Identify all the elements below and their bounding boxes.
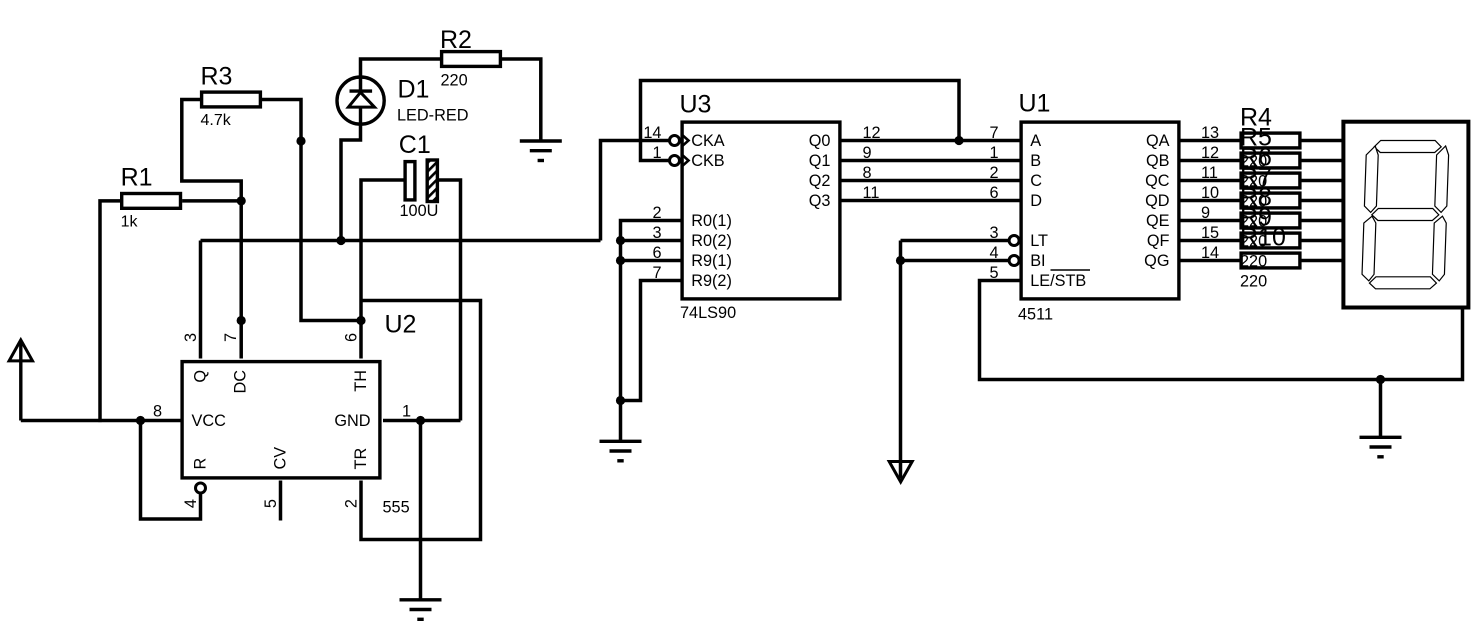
resistor R8	[1241, 213, 1300, 228]
svg-text:TR: TR	[352, 448, 370, 470]
svg-text:7: 7	[989, 124, 998, 142]
svg-text:LT: LT	[1030, 232, 1048, 250]
svg-text:Q: Q	[192, 370, 210, 383]
resistor R4	[1241, 133, 1300, 148]
decoder U1 4511 box	[1021, 122, 1179, 299]
svg-text:Q0: Q0	[809, 132, 831, 150]
svg-text:74LS90: 74LS90	[680, 304, 736, 322]
svg-text:220: 220	[1240, 273, 1267, 291]
svg-text:BI: BI	[1030, 252, 1045, 270]
wire U1 to R9	[1181, 239, 1240, 243]
svg-text:QC: QC	[1145, 172, 1170, 190]
resistor R9	[1241, 233, 1300, 248]
wire U3 R0(1)	[621, 221, 681, 241]
node D1/output rail	[336, 236, 345, 245]
wire LE/STB to display common rail	[980, 281, 1463, 380]
svg-text:QD: QD	[1145, 192, 1169, 210]
node on DC line	[237, 316, 246, 325]
wire U1 to R5	[1181, 159, 1240, 163]
wire Q1 to U1 B	[842, 159, 1020, 163]
svg-text:CKB: CKB	[691, 152, 724, 170]
wire Q2 to U1 C	[842, 179, 1020, 183]
svg-text:U3: U3	[680, 91, 712, 119]
svg-text:2: 2	[343, 499, 361, 508]
svg-text:D: D	[1030, 192, 1042, 210]
wire to right ground	[1379, 380, 1383, 438]
svg-text:2: 2	[652, 204, 661, 222]
wire U1 to R8	[1181, 219, 1240, 223]
wire Q0 to U1 A	[842, 139, 1020, 143]
svg-text:R3: R3	[201, 62, 233, 90]
node reset R0(2)	[616, 236, 625, 245]
wire U2 Q pin 3	[199, 241, 203, 359]
wire R1 left to VCC rail	[100, 201, 120, 422]
op-amp/timer U2 555 box	[182, 362, 380, 478]
display segment B	[1435, 146, 1449, 212]
resistor R1	[122, 194, 181, 209]
wire R1 right lead	[182, 199, 241, 203]
wire R3 left to U2 DC pin 7	[182, 100, 241, 359]
node TH junction	[356, 316, 365, 325]
resistor R3	[202, 92, 261, 107]
display segment D	[1369, 277, 1436, 289]
wire LT	[901, 239, 1010, 243]
wire C1 right to GND pin	[438, 180, 461, 421]
wire R5 to display	[1302, 159, 1344, 163]
node LT/BI	[896, 256, 905, 265]
ground below 555	[400, 600, 442, 620]
svg-text:C: C	[1030, 172, 1042, 190]
U2 R pin bubble	[196, 483, 206, 493]
node on R3 line	[296, 136, 305, 145]
resistor R7	[1241, 193, 1300, 208]
svg-text:6: 6	[652, 244, 661, 262]
svg-text:6: 6	[343, 333, 361, 342]
svg-text:1: 1	[402, 403, 411, 421]
U3 CKA bubble	[670, 136, 680, 146]
wire to ground under 555	[419, 421, 423, 601]
svg-text:D1: D1	[398, 76, 430, 104]
svg-text:R9(2): R9(2)	[691, 272, 732, 290]
node GND pin junction	[416, 416, 425, 425]
display segment F	[1364, 146, 1378, 212]
svg-text:A: A	[1030, 132, 1041, 150]
svg-text:4: 4	[182, 499, 200, 508]
svg-text:555: 555	[383, 499, 410, 517]
svg-text:2: 2	[989, 164, 998, 182]
svg-text:1k: 1k	[121, 213, 139, 230]
svg-text:Q1: Q1	[809, 152, 831, 170]
svg-text:LED-RED: LED-RED	[397, 107, 468, 125]
LED D1	[337, 77, 384, 125]
wire reset chain to ground	[619, 241, 623, 442]
svg-text:CKA: CKA	[691, 132, 725, 150]
svg-text:R2: R2	[440, 26, 472, 54]
svg-text:R10: R10	[1240, 223, 1286, 251]
wire R2 right to ground	[502, 59, 541, 142]
svg-text:QF: QF	[1147, 232, 1170, 250]
svg-text:QG: QG	[1144, 252, 1169, 270]
svg-text:220: 220	[441, 71, 468, 89]
svg-text:U2: U2	[385, 311, 417, 339]
svg-text:14: 14	[643, 124, 661, 142]
svg-text:7: 7	[652, 264, 661, 282]
svg-text:1: 1	[989, 144, 998, 162]
svg-text:7: 7	[222, 333, 240, 342]
wire U2 reset pin 4 loop	[141, 421, 201, 520]
svg-text:R9(1): R9(1)	[691, 252, 732, 270]
svg-text:QE: QE	[1146, 212, 1170, 230]
wire LT/BI to arrow	[899, 241, 903, 479]
display segment C	[1432, 216, 1446, 281]
7-segment display box	[1343, 122, 1468, 308]
svg-text:6: 6	[989, 184, 998, 202]
resistor R6	[1241, 173, 1300, 188]
wire R9 to display	[1302, 239, 1344, 243]
wire VCC rail to U2 pin 8	[21, 419, 182, 423]
svg-text:R1: R1	[121, 164, 153, 192]
wire TH to TR loop	[361, 301, 481, 540]
wire U1 to R7	[1181, 199, 1240, 203]
node VCC/reset	[136, 416, 145, 425]
node reset R9(1)	[616, 256, 625, 265]
svg-text:C1: C1	[399, 131, 431, 159]
U3 CKB bubble	[670, 156, 680, 166]
down arrow terminal	[889, 462, 912, 482]
svg-text:QB: QB	[1146, 152, 1170, 170]
ground below R2	[520, 141, 562, 161]
wire R10 to display	[1302, 259, 1344, 263]
U3 CKB clock mark	[682, 154, 689, 166]
U1 BI bubble	[1009, 256, 1019, 266]
wire output rail to CKA	[601, 141, 670, 241]
U3 CKA clock mark	[682, 134, 689, 146]
svg-text:5: 5	[262, 499, 280, 508]
ground below U3	[600, 441, 642, 461]
svg-text:220: 220	[1240, 253, 1267, 271]
wire R8 to display	[1302, 219, 1344, 223]
svg-text:8: 8	[153, 403, 162, 421]
svg-text:GND: GND	[334, 412, 370, 430]
U1 LT bubble	[1009, 236, 1019, 246]
svg-text:4511: 4511	[1018, 306, 1053, 324]
wire R6 to display	[1302, 179, 1344, 183]
svg-text:TH: TH	[352, 370, 370, 392]
wire U3 R9(1)	[621, 259, 681, 263]
wire C1 left to U2 TH pin 6	[361, 180, 404, 359]
wire R7 to display	[1302, 199, 1344, 203]
wire U1 to R10	[1181, 259, 1240, 263]
svg-text:DC: DC	[232, 370, 250, 394]
node reset R9(2)	[616, 396, 625, 405]
wire R4 to display	[1302, 139, 1344, 143]
svg-text:3: 3	[182, 333, 200, 342]
svg-text:CV: CV	[272, 447, 290, 470]
wire Q3 to U1 D	[842, 199, 1020, 203]
wire R3 right to TH line	[262, 100, 361, 321]
svg-text:U1: U1	[1019, 90, 1051, 118]
counter U3 74LS90 box	[682, 122, 840, 299]
display segment G	[1372, 209, 1439, 221]
ground right	[1360, 437, 1402, 457]
svg-text:VCC: VCC	[192, 412, 227, 430]
wire BI	[901, 259, 1010, 263]
svg-text:R: R	[192, 458, 210, 470]
svg-text:R0(1): R0(1)	[691, 212, 732, 230]
wire 555 output rail	[201, 239, 601, 243]
resistor R2	[442, 52, 501, 67]
wire U1 to R4	[1181, 139, 1240, 143]
node Q0 feedback	[954, 136, 963, 145]
wire D1 anode to R2	[361, 59, 441, 92]
wire U3 R0(2)	[621, 239, 681, 243]
svg-text:QA: QA	[1146, 132, 1170, 150]
wire CKB to Q0 feedback rail	[641, 81, 960, 161]
wire D1 cathode to output rail	[341, 123, 361, 241]
svg-text:100U: 100U	[400, 202, 439, 220]
svg-text:3: 3	[652, 224, 661, 242]
svg-text:R0(2): R0(2)	[691, 232, 732, 250]
svg-text:LE/STB: LE/STB	[1030, 272, 1086, 290]
svg-text:Q2: Q2	[809, 172, 831, 190]
svg-text:1: 1	[652, 144, 661, 162]
display segment A	[1374, 141, 1441, 153]
svg-text:Q3: Q3	[809, 192, 831, 210]
node common rail ground	[1376, 375, 1385, 384]
svg-text:4.7k: 4.7k	[201, 112, 232, 129]
wire U2 CV pin 5 stub	[279, 481, 283, 521]
capacitor C1	[405, 160, 437, 202]
resistor R10	[1241, 253, 1300, 268]
node R1/DC junction	[237, 196, 246, 205]
power flag VCC supply arrow	[9, 340, 32, 421]
wire U2 GND pin 1	[383, 419, 461, 423]
resistor R5	[1241, 153, 1300, 168]
wire U1 to R6	[1181, 179, 1240, 183]
display segment E	[1362, 216, 1376, 281]
wire U3 R9(2)	[621, 281, 681, 401]
svg-text:B: B	[1030, 152, 1041, 170]
